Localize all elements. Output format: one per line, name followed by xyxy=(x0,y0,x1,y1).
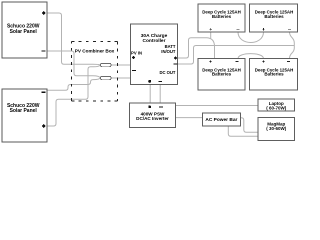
wire battery B2- to B4- tie xyxy=(290,32,295,59)
wire W4 panel2 top terminal to fuse F2 merge xyxy=(47,80,94,91)
laptop load xyxy=(258,99,295,111)
svg-text:Solar Panel: Solar Panel xyxy=(10,29,38,35)
wire fuse F1 to controller PV IN + xyxy=(111,64,130,66)
junction arc into fuse F2 xyxy=(93,76,100,80)
panel2 top terminal xyxy=(42,92,46,93)
wire battery B3- to B4+ series link xyxy=(238,54,264,59)
wire controller BATT- to battery bank xyxy=(178,46,294,65)
svg-text:IN/OUT: IN/OUT xyxy=(161,49,176,54)
controller BATT + marker xyxy=(174,56,177,59)
wire power bar bottom to magmap xyxy=(228,126,258,137)
magmap load xyxy=(258,117,295,140)
svg-text:DC OUT: DC OUT xyxy=(159,70,175,75)
svg-text:AC Power Bar: AC Power Bar xyxy=(205,117,237,123)
battery B3 + terminal xyxy=(209,61,211,63)
solar panel 2 xyxy=(2,89,47,142)
svg-text:( 60-70W): ( 60-70W) xyxy=(266,106,287,111)
battery B3 - terminal xyxy=(236,61,239,63)
battery B1 - terminal xyxy=(237,28,240,30)
svg-text:DC/AC Inverter: DC/AC Inverter xyxy=(136,116,169,121)
inverter + terminal xyxy=(148,105,151,108)
panel1 - terminal xyxy=(42,50,46,51)
AC power bar xyxy=(202,113,240,126)
panel1 + terminal xyxy=(42,11,46,15)
junction arc into fuse F1 xyxy=(93,64,101,67)
wire fuse F2 to controller PV IN - xyxy=(111,77,130,79)
svg-text:Batteries: Batteries xyxy=(212,14,232,19)
svg-text:Batteries: Batteries xyxy=(264,72,284,77)
wire power bar right to magmap xyxy=(241,118,259,133)
controller DC OUT - terminal xyxy=(158,81,162,82)
svg-text:Controller: Controller xyxy=(143,38,166,44)
controller DC OUT + terminal xyxy=(148,80,151,83)
svg-text:PV IN: PV IN xyxy=(131,51,142,56)
PV combiner box (dashed) xyxy=(72,42,118,102)
svg-text:Batteries: Batteries xyxy=(212,72,232,77)
battery B2 + terminal xyxy=(262,28,264,30)
controller PV - marker xyxy=(132,70,136,71)
inverter xyxy=(130,103,176,127)
wire W1 panel1 + to fuse F1 xyxy=(47,13,94,64)
svg-text:Solar Panel: Solar Panel xyxy=(10,108,38,114)
panel2 + terminal xyxy=(42,124,46,128)
battery B4 - terminal xyxy=(287,61,290,63)
controller PV + marker xyxy=(132,56,135,59)
svg-text:Batteries: Batteries xyxy=(264,14,284,19)
wire inverter to laptop line xyxy=(176,105,259,107)
svg-text:PV Combiner Box: PV Combiner Box xyxy=(75,48,115,53)
wire W2 panel1 - to fuse F2 merge xyxy=(47,51,94,76)
wire inverter AC out to power bar xyxy=(176,117,203,119)
solar panel 1 xyxy=(2,2,47,58)
wire battery B1- to B2+ series link xyxy=(238,32,264,43)
wire controller BATT+ to battery bank xyxy=(178,32,215,59)
charge controller U1 xyxy=(131,24,178,85)
svg-text:30A Charge: 30A Charge xyxy=(141,33,168,39)
inverter - terminal xyxy=(159,106,163,107)
battery B2 - terminal xyxy=(288,28,291,30)
fuse F2 xyxy=(101,76,112,79)
battery B1 + terminal xyxy=(210,28,212,30)
wire controller DC OUT + down to inverter xyxy=(149,85,151,103)
battery B1 xyxy=(198,4,245,32)
battery B3 xyxy=(198,59,245,91)
controller BATT - marker xyxy=(174,63,178,64)
wire controller DC OUT - down to inverter xyxy=(159,85,161,103)
battery B2 xyxy=(250,4,298,32)
battery B4 + terminal xyxy=(262,61,264,63)
wire W3 panel2 bottom + to fuse F1 merge xyxy=(47,67,94,126)
svg-text:( 30-60W): ( 30-60W) xyxy=(266,126,287,131)
battery B4 xyxy=(250,59,298,91)
fuse F1 xyxy=(101,63,112,66)
